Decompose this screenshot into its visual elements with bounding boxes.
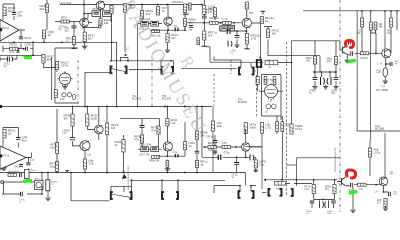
junction dot 376b — [375, 184, 377, 186]
resistor RF7 — [156, 6, 167, 15]
resistor R282 — [281, 122, 284, 132]
resistor R157b — [151, 126, 160, 135]
wire rf23 row — [3, 42, 33, 55]
switch contact S7 — [239, 191, 254, 198]
capacitor st3b — [152, 148, 157, 150]
resistor R359 — [358, 183, 367, 186]
resistor R362b — [360, 52, 369, 55]
wire r262t stub — [261, 133, 263, 147]
arrow lever — [122, 174, 127, 179]
capacitor C311 — [310, 201, 315, 203]
wire row61 — [111, 60, 173, 62]
resistor RQ3 oval — [383, 68, 388, 77]
input terminal left — [0, 28, 2, 31]
wire rf14 down — [124, 12, 126, 53]
wire c236 down — [236, 157, 238, 172]
svg-text:L17: L17 — [30, 159, 35, 162]
resistor R245top — [245, 2, 248, 9]
input terminal left2 — [0, 155, 2, 158]
wire x202 mid — [201, 107, 203, 158]
wire mid feeds — [254, 61, 292, 63]
svg-text:BC 238B: BC 238B — [377, 88, 388, 92]
wire long y68 — [181, 67, 237, 69]
resistor R336 — [334, 57, 337, 65]
pin circles tube1 — [62, 93, 66, 97]
wire st3 row — [138, 148, 162, 150]
resistor R391 — [389, 18, 392, 27]
wire rf17 down — [84, 42, 86, 46]
wire rail y55 — [0, 54, 42, 56]
svg-text:L6a17a: L6a17a — [88, 159, 93, 166]
ground c325 — [323, 87, 328, 90]
resistor R292 — [290, 124, 303, 134]
resistor R375 — [374, 22, 377, 30]
wire row181 — [8, 173, 48, 183]
resistor R213 — [211, 121, 221, 131]
svg-text:CF3c: CF3c — [173, 152, 179, 154]
resistor RF1a — [274, 182, 285, 185]
wire s9 out — [294, 182, 312, 184]
wire x257 col — [257, 67, 259, 92]
wire tq2 up — [390, 50, 392, 53]
wire s6 leads — [162, 180, 178, 192]
wire vert x370 — [370, 11, 372, 140]
trimmer box st2b — [228, 25, 234, 31]
wire s1 leads — [129, 69, 161, 71]
svg-text:L/4B117k: L/4B117k — [206, 7, 213, 14]
junction dot row194 — [41, 193, 43, 195]
resistor C189 — [189, 3, 192, 10]
wire x72 col — [73, 107, 81, 146]
resistor R57b — [50, 143, 59, 154]
junction dots x87 — [72, 106, 89, 108]
junction dots rail42 — [13, 41, 112, 43]
resistor RF23 — [10, 43, 19, 54]
capacitor C332 — [331, 201, 336, 203]
resistor RF12 — [266, 29, 279, 38]
resistor R85b — [83, 159, 93, 170]
resistor RF5b — [134, 135, 144, 144]
wire rail2 y4.5 — [131, 4, 202, 6]
wire br caps down — [312, 203, 334, 208]
resistor RF9c — [333, 185, 336, 194]
wire row y156 — [158, 155, 185, 157]
wire row y30 — [150, 27, 185, 31]
highlight green 4 — [348, 190, 357, 195]
module box mid — [262, 75, 282, 120]
junction dot 203 — [203, 22, 205, 24]
resistor R198 — [197, 38, 200, 45]
capacitor st3a — [142, 148, 147, 150]
capacitor CF31 — [26, 47, 28, 51]
switch contact S3 — [239, 68, 254, 75]
wire tube1 wires — [52, 57, 65, 100]
resistor R245b — [244, 123, 256, 134]
wire rail y106 — [0, 106, 212, 108]
capacitor C388 — [389, 192, 391, 197]
ground tf4 — [165, 50, 170, 53]
resistor RQ8b — [384, 198, 387, 206]
wire vert x262 — [246, 147, 262, 189]
switch contact S4 — [257, 60, 261, 67]
resistor R247 — [245, 34, 259, 45]
svg-text:CF11a: CF11a — [206, 136, 214, 139]
capacitor in HF2 — [104, 12, 110, 14]
divider dash x231 — [230, 60, 232, 74]
junction dots row228 — [203, 22, 235, 24]
wire tq4 gnd — [385, 206, 387, 208]
trimmer box st2a — [221, 25, 227, 31]
wire s2 vert — [161, 61, 174, 67]
resistor R56 — [55, 61, 69, 70]
wire vert x204 — [203, 0, 205, 31]
wire vert x385b — [384, 11, 386, 49]
wire rail y42 — [0, 42, 117, 106]
wire rf11 top — [167, 30, 169, 33]
electrolytic C47 — [46, 180, 50, 191]
capacitor C390 — [390, 62, 392, 66]
capacitor C323 curves — [321, 77, 332, 85]
capacitor C215c — [213, 151, 218, 153]
svg-text:CF10: CF10 — [173, 25, 179, 27]
resistor R277 — [276, 122, 279, 132]
wire tf4 — [167, 5, 169, 31]
resistor R111 — [110, 6, 113, 14]
junction dot hf — [83, 13, 85, 15]
wire tube1 box — [55, 48, 84, 103]
capacitor CF10 bold — [175, 27, 178, 31]
junction dots rf23 — [18, 48, 25, 50]
wire tf2 down — [99, 10, 101, 11]
wire r256 down — [255, 168, 257, 173]
svg-text:4F7a100k: 4F7a100k — [249, 123, 256, 130]
capacitor st3top — [140, 126, 145, 128]
svg-text:RF23: RF23 — [10, 43, 18, 47]
svg-text:17a: 17a — [10, 50, 15, 54]
svg-text:L.7v: L.7v — [378, 63, 383, 66]
wire box top y72 — [85, 72, 110, 106]
svg-text:L1Ω: L1Ω — [60, 98, 65, 101]
resistor RF16 — [3, 129, 16, 138]
resistor RF17 — [83, 32, 95, 42]
switch contact S9 — [291, 189, 293, 196]
bar 203 — [202, 45, 208, 47]
wire r369 — [369, 140, 371, 176]
wire rail y183 — [130, 180, 225, 192]
wire hf row — [84, 14, 111, 22]
wire rail y11 — [303, 10, 400, 12]
resistor R315 — [313, 56, 316, 64]
divider dash x78 — [77, 60, 79, 107]
wire vert x292 — [291, 41, 293, 124]
svg-text:CF27 17k: CF27 17k — [139, 154, 150, 157]
resistor RF9a — [152, 30, 160, 33]
capacitor CF13b — [19, 165, 23, 167]
wire s8 leads — [262, 183, 290, 192]
wire in chain — [2, 182, 8, 194]
wire tq1 gnd stub — [346, 56, 348, 60]
highlight red 1 — [345, 40, 353, 47]
junction dots rc72 — [314, 71, 337, 73]
trimmer HF1 box — [92, 11, 101, 17]
divider dash x286 — [286, 42, 288, 196]
capacitor C336 — [334, 78, 339, 80]
wire rf27 down — [44, 63, 60, 68]
svg-text:RF9b 12k: RF9b 12k — [149, 160, 160, 163]
junction dot 167 — [167, 106, 169, 108]
junction dots row61 — [110, 60, 172, 62]
capacitor C351b — [351, 183, 353, 188]
wire rc down — [315, 81, 336, 86]
wire r370 — [371, 30, 376, 53]
capacitor CF13 — [26, 163, 31, 165]
transistor TQ2 — [382, 49, 391, 58]
resistor RF10 — [203, 5, 216, 15]
capacitor C19b — [20, 173, 22, 178]
wire br mid — [314, 194, 335, 200]
junction x-mark — [17, 50, 20, 53]
resistor RF14 — [123, 3, 136, 12]
wire row y184 — [354, 184, 381, 186]
junction dots y180 — [296, 179, 336, 181]
trimmer box st3b — [151, 147, 159, 152]
wire tf5 out — [251, 23, 260, 58]
capacitor C72 bold — [70, 138, 75, 140]
switch contact S8 — [269, 189, 282, 196]
wire row y228 — [187, 22, 242, 24]
capacitor C220 bold — [218, 155, 221, 160]
wire r107 — [106, 107, 108, 173]
svg-text:CF1a: CF1a — [224, 152, 231, 155]
tube V1 — [57, 71, 72, 86]
capacitor CF12 curve — [11, 57, 14, 62]
resistor R197c — [195, 160, 207, 168]
wire r85b down — [84, 169, 86, 173]
resistor R362 — [360, 18, 363, 27]
svg-text:CF31: CF31 — [25, 42, 33, 46]
junction dot 83 — [83, 27, 85, 29]
resistor RF17a — [203, 31, 217, 41]
trimmer CF box1 — [141, 21, 149, 26]
junction dot tq2e — [385, 63, 387, 65]
wire fr cluster — [386, 58, 390, 68]
wire cf12 row — [0, 55, 17, 61]
svg-text:L7a: L7a — [223, 17, 228, 21]
trimmer HF2 box — [102, 11, 111, 17]
svg-text:www.radiomuseum.org: www.radiomuseum.org — [127, 165, 130, 190]
junction dots br — [322, 199, 324, 201]
svg-text:L7Ω/1a: L7Ω/1a — [360, 57, 368, 60]
wire tq4 up — [384, 133, 386, 178]
wire top rail y4.5 — [60, 0, 131, 22]
capacitor C352 — [351, 51, 353, 56]
wire rail y185mid — [214, 186, 256, 191]
switch contact S1 — [111, 66, 128, 73]
svg-text:RQ8aCF7a: RQ8aCF7a — [295, 124, 303, 131]
junction dots rail55 — [32, 54, 34, 56]
wire vert x296 — [296, 158, 298, 186]
resistor L7b — [222, 141, 231, 149]
wire opamp1 out — [19, 30, 25, 49]
wire tf5 top — [246, 9, 248, 18]
transistor TF2b — [95, 125, 104, 134]
wire x167 down — [166, 107, 168, 119]
resistor R72 — [64, 114, 75, 127]
capacitor CF5 — [71, 26, 76, 28]
capacitor CF3c bold — [175, 154, 178, 157]
wire q385 down — [384, 77, 386, 81]
ground q385 — [383, 81, 388, 84]
bar rf19 — [72, 47, 77, 49]
capacitor C20b — [21, 192, 23, 197]
resistor RF13b — [208, 141, 217, 152]
wire rf12 top — [264, 27, 272, 30]
junction dot s1 — [127, 60, 129, 62]
resistor R107 — [105, 123, 118, 135]
wire tf7 top — [245, 129, 247, 157]
input terminal circle — [1, 181, 4, 184]
wire rq4 down — [100, 16, 102, 18]
capacitor inline bold — [227, 29, 230, 34]
wire L feed st3 — [120, 119, 160, 126]
svg-text:HF1 CF6: HF1 CF6 — [93, 8, 104, 11]
arrow adj — [125, 54, 128, 57]
op-amp TF1b — [0, 146, 26, 170]
wire r247 down — [245, 28, 248, 49]
wire vert x357 — [356, 11, 358, 85]
wire row194 — [8, 186, 48, 197]
junction dots row157 — [236, 156, 247, 158]
junction dots st3 — [184, 106, 186, 108]
capacitor CFb2 — [152, 23, 157, 25]
wire x210 riser — [206, 47, 254, 62]
resistor R369 — [368, 148, 380, 158]
resistor R87 — [86, 114, 98, 127]
capacitor C197 — [195, 151, 199, 153]
wire tf2b — [98, 107, 100, 141]
wire tf6 vert — [166, 126, 168, 161]
transistor TF3b — [80, 141, 90, 151]
wire to2 box — [357, 85, 400, 131]
wire rail y172 — [0, 173, 245, 186]
wire vert x213 — [212, 107, 214, 173]
svg-text:www.radiomuseum.org: www.radiomuseum.org — [334, 147, 337, 172]
svg-text:RF13a: RF13a — [210, 16, 219, 20]
resistor RF25 — [40, 4, 49, 13]
wire row21 — [55, 21, 92, 24]
resistor RF19 — [66, 37, 76, 45]
svg-text:L1a: L1a — [188, 29, 193, 32]
junction dot tf6 — [167, 155, 169, 157]
wire rc row y72 — [313, 64, 337, 78]
ground x353 — [350, 210, 355, 213]
junction dots rail2 — [141, 4, 203, 6]
junction dots rail172 — [28, 172, 198, 174]
junction dots s4 — [259, 57, 292, 64]
wire top-left feed — [3, 4, 14, 20]
bar c185 — [183, 13, 189, 15]
resistor R370 — [370, 22, 373, 30]
ground in — [1, 168, 6, 171]
transistor TF5 — [242, 18, 251, 27]
ground c336 — [333, 87, 338, 90]
svg-text:TF1 A: TF1 A — [2, 26, 10, 30]
wire row y53 — [355, 52, 382, 54]
trimmer CF box2 — [151, 21, 159, 26]
wire rf5a — [141, 5, 143, 22]
wire x111 down — [111, 14, 113, 61]
svg-text:RF3: RF3 — [61, 16, 67, 20]
wire row y157 — [202, 157, 256, 160]
terminal circle 99 — [99, 25, 102, 28]
resistor R261 — [260, 16, 274, 24]
cap CF14 box — [25, 170, 30, 179]
wire rail y40.8 — [292, 41, 343, 50]
resistor RF3 — [61, 16, 70, 24]
svg-text:RF13b: RF13b — [208, 141, 217, 145]
ground rf17 — [82, 46, 87, 49]
svg-text:CF11: CF11 — [24, 36, 31, 40]
wire r123 — [123, 135, 125, 173]
resistor RQ18 — [273, 77, 276, 85]
ground c237 — [234, 45, 239, 48]
resistor R167b — [166, 118, 178, 126]
resistor R57c — [50, 162, 59, 172]
svg-text:TF8: TF8 — [249, 12, 254, 15]
resistor RF11 — [166, 33, 179, 43]
wire x353 down — [352, 187, 354, 209]
junction dots row31 — [236, 30, 247, 32]
capacitor CF8 — [16, 138, 20, 140]
svg-text:L.7v: L.7v — [374, 191, 379, 194]
wire y60 feed — [214, 57, 241, 61]
wire r391 — [362, 11, 397, 52]
transistor TF6 — [163, 142, 172, 151]
svg-text:RF12: RF12 — [267, 61, 273, 63]
transistor TF4 — [164, 17, 172, 25]
capacitor C320 curves — [320, 201, 329, 209]
junction dot 197 — [196, 106, 198, 108]
resistor RF8b — [195, 131, 207, 140]
junction dots rail11 — [361, 10, 398, 12]
highlight green 2 — [22, 179, 32, 184]
svg-text:CF2c CF4b: CF2c CF4b — [139, 143, 152, 146]
resistor RQ4 — [99, 18, 112, 25]
input terminal mid — [0, 105, 2, 108]
wire stub y165 — [287, 164, 297, 166]
ground tf6 — [165, 169, 171, 170]
resistor R54 — [54, 90, 57, 98]
resistor R256 — [254, 160, 266, 168]
transistor TF2 — [96, 1, 105, 10]
wire x215 — [214, 17, 216, 20]
junction dot 376a — [375, 52, 377, 54]
ground tube1 — [62, 87, 67, 90]
wire x87 col — [85, 107, 95, 160]
switch contact S2 — [162, 67, 174, 74]
arrow bm — [264, 178, 267, 181]
svg-text:4F30100k: 4F30100k — [91, 114, 98, 121]
wire rf19 down — [73, 45, 75, 48]
wire cf5 — [73, 22, 75, 37]
wire row y158 right — [297, 157, 340, 159]
capacitor CF12 — [8, 57, 10, 62]
wire x215 mid — [214, 135, 216, 155]
svg-text:10k: 10k — [208, 148, 213, 152]
wire row y147 mid — [203, 146, 262, 148]
ground tq1 — [345, 60, 350, 63]
junction dots rail106 — [84, 106, 203, 108]
